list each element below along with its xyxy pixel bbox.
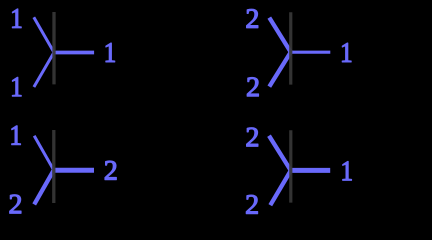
label 1 (upper-left) fig3 [12, 126, 21, 145]
label 2 (lower-left) fig2 [247, 78, 258, 97]
edge right weight 1 fig1 [54, 51, 94, 55]
label 2 (upper-left) fig4 [247, 128, 258, 147]
fiber line (grey, over edges) fig4 [289, 130, 292, 202]
edge right weight 1 fig4 [291, 168, 330, 173]
fiber line (grey, over edges) fig3 [52, 130, 55, 203]
edge right weight 2 fig3 [54, 168, 94, 173]
edge down-left weight 1 fig1 [34, 52, 54, 87]
fiber line (grey, over edges) fig2 [289, 12, 292, 84]
label 2 (lower-left) fig4 [246, 195, 257, 214]
edge down-left weight 2 fig2 [269, 52, 290, 87]
edge down-left weight 2 fig4 [270, 171, 291, 206]
edge up-left weight 2 fig4 [269, 136, 291, 171]
label 1 (upper-left) fig1 [12, 9, 21, 28]
label 1 (right) fig4 [343, 162, 352, 181]
label 2 (upper-left) fig2 [247, 9, 258, 28]
edge down-left weight 2 fig3 [34, 170, 54, 204]
edge up-left weight 1 fig1 [34, 17, 54, 52]
label 2 (right) fig3 [105, 161, 116, 180]
edge up-left weight 1 fig3 [34, 136, 54, 170]
edge up-left weight 2 fig2 [269, 18, 290, 53]
label 1 (right) fig2 [342, 43, 351, 62]
label 1 (right) fig1 [106, 43, 115, 62]
edge right weight 1 fig2 [291, 51, 331, 54]
label 1 (lower-left) fig1 [12, 77, 21, 96]
label 2 (lower-left) fig3 [10, 195, 21, 214]
fiber line (grey, over edges) fig1 [52, 12, 55, 84]
